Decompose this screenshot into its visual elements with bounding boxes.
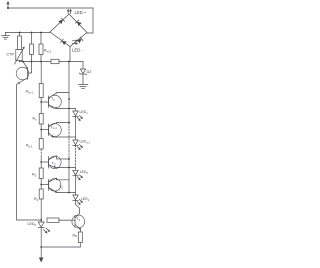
ground below DZ (78, 85, 88, 89)
svg-text:LED -: LED - (72, 47, 83, 52)
ground top-left (2, 33, 10, 40)
resistor R3 (39, 168, 43, 179)
svg-text:DZ: DZ (87, 70, 93, 74)
node ladder tap n-1 (40, 129, 42, 131)
wire to T6 base (28, 55, 32, 74)
wire Tn collector to bus (57, 92, 70, 95)
wire RE to bottom rail (79, 243, 81, 248)
transistor T3 (41, 156, 69, 169)
node (31, 61, 33, 63)
wire (40, 98, 42, 114)
node (40, 61, 42, 63)
LED6 (38, 222, 50, 234)
node top-left junction (7, 7, 9, 9)
wire (31, 33, 33, 45)
resistor Rn+2 (39, 44, 43, 55)
thermistor CTP (15, 46, 25, 64)
wire bottom arrow to 0V (39, 247, 44, 263)
wire ground rail to bridge AC left (6, 32, 51, 34)
wire reference rail y61.5 (20, 61, 52, 63)
resistor (middle column) (30, 44, 34, 55)
resistor Rn+1 (39, 84, 43, 98)
wire (40, 158, 42, 169)
wire (40, 179, 42, 190)
wire ladder dashed continuation (40, 149, 42, 158)
wire LED6 to bottom rail (40, 227, 42, 247)
resistor R1 (horizontal, T1 base) (47, 218, 59, 222)
zener DZ (79, 62, 86, 85)
wire (40, 55, 42, 62)
wire bridge DC- down (69, 47, 71, 62)
node ladder tap 3 (40, 161, 42, 163)
resistor Rn (39, 114, 43, 125)
node T6 collector to rail (22, 61, 24, 63)
transistor T1 (59, 212, 85, 233)
resistor Rn-1 (39, 139, 43, 150)
wire T6 emitter rail down left side (17, 84, 42, 220)
transistor Tn (41, 93, 69, 109)
wire (40, 124, 42, 139)
svg-text:LED +: LED + (75, 10, 87, 15)
wire LED anode bus vertical (68, 62, 70, 124)
wire ladder top (40, 62, 42, 84)
wire (40, 33, 42, 45)
wire T1 base lead (59, 219, 71, 221)
transistor Tn-1 (41, 123, 69, 137)
wire right drop to bridge (87, 8, 93, 33)
node bus junctions (68, 98, 70, 100)
wire CTP bottom to rail (19, 61, 21, 62)
node ladder tap n (40, 101, 42, 103)
resistor R2 (39, 189, 43, 199)
node LED+ terminal arrows (67, 9, 72, 14)
wire T2 collector to bus (57, 178, 70, 180)
svg-text:CTP: CTP (7, 53, 15, 57)
resistor (horizontal on rail) (51, 59, 59, 63)
wire (40, 199, 42, 222)
node bottom junction (40, 246, 42, 248)
node ladder tap 2 (40, 184, 42, 186)
transistor T2 (41, 178, 69, 192)
wire Tn-1 collector to bus (57, 122, 70, 125)
wire top rail (8, 7, 93, 9)
resistor R (above CTP) (18, 36, 22, 50)
LED n (69, 109, 83, 141)
node bus top junction (68, 61, 70, 63)
wire (19, 33, 21, 37)
wire LED chain dashed continuation (75, 145, 77, 166)
node ladder bottom junction (40, 219, 42, 221)
node LED- terminal arrows (73, 40, 79, 45)
resistor RE (78, 232, 82, 243)
node junction R2 column (31, 32, 33, 34)
wire bottom rail (41, 246, 80, 248)
node junction Rn+2 column (40, 32, 42, 34)
wire supply stub top-left (6, 1, 9, 8)
transistor T6 (CTP sense, mirrored) (16, 62, 29, 84)
LED LED1 (69, 193, 83, 212)
LED LED2 (69, 168, 83, 193)
wire (59, 61, 83, 63)
LED n-1 (69, 137, 83, 150)
bridge rectifier PR (50, 14, 87, 47)
node junction R-CTP column (19, 32, 21, 34)
wire T3 collector to bus (57, 156, 70, 159)
